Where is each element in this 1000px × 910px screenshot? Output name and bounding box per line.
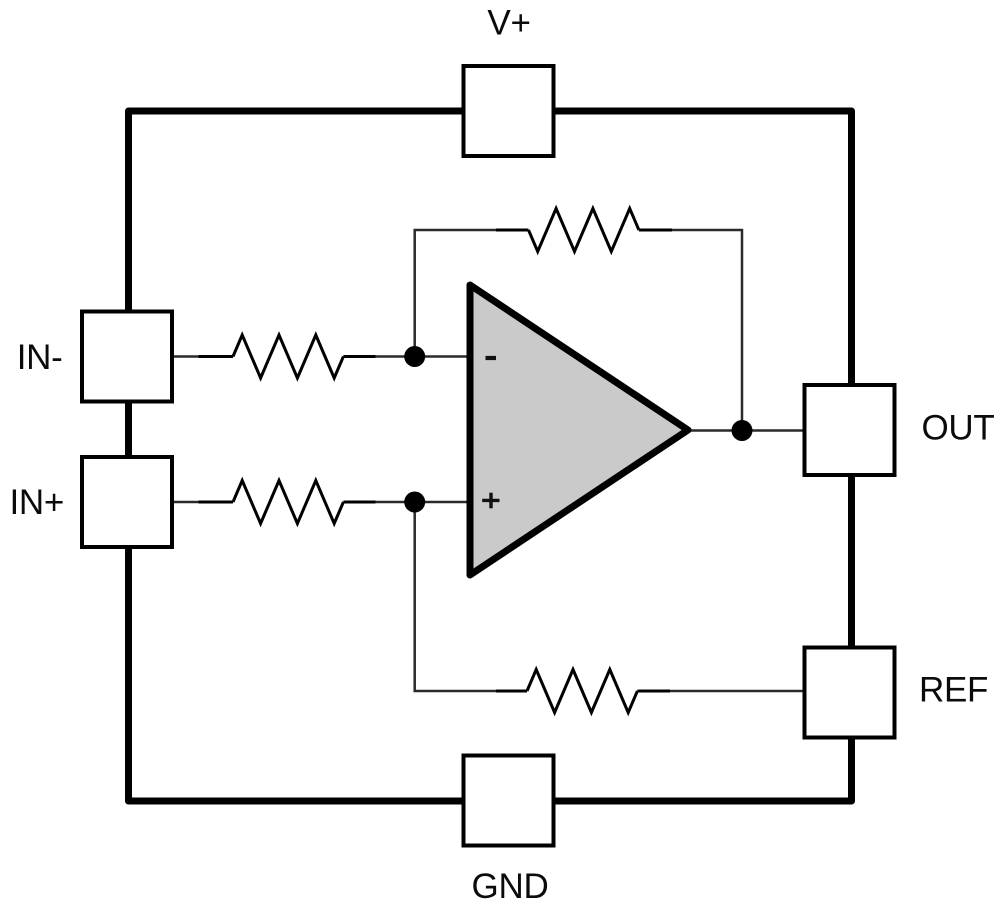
svg-text:REF: REF	[919, 671, 988, 710]
svg-text:OUT: OUT	[922, 409, 995, 448]
svg-text:IN-: IN-	[17, 338, 63, 377]
svg-text:V+: V+	[487, 4, 530, 43]
svg-text:GND: GND	[472, 867, 549, 906]
svg-text:IN+: IN+	[9, 483, 64, 522]
